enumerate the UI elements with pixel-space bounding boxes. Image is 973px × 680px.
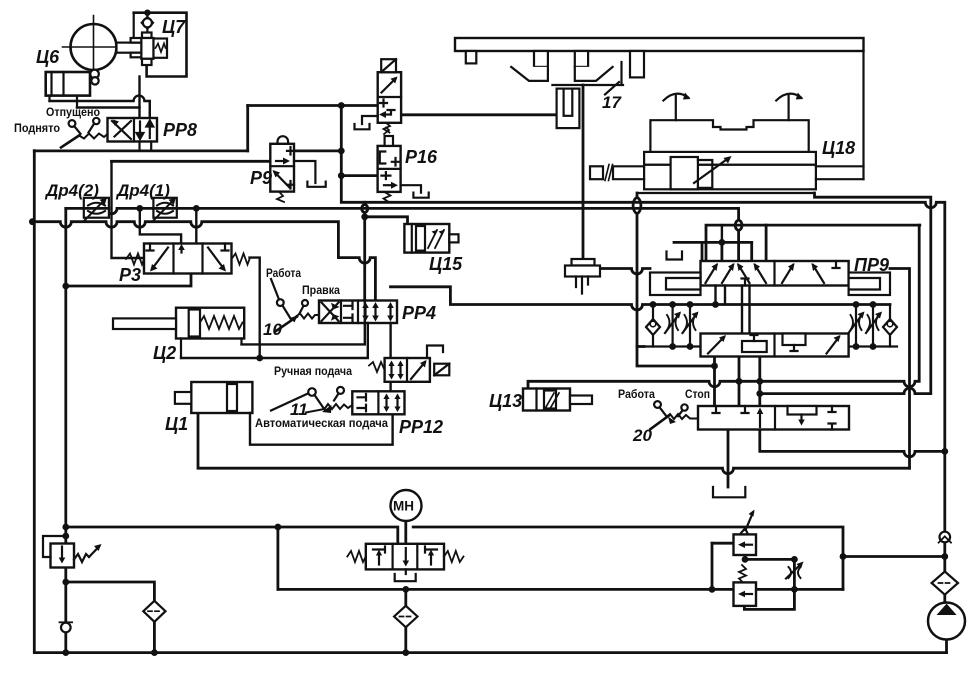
svg-text:ПР9: ПР9	[854, 255, 889, 275]
svg-text:Др4(2): Др4(2)	[44, 181, 99, 200]
svg-text:Стоп: Стоп	[685, 389, 710, 401]
svg-text:Р9: Р9	[250, 168, 272, 188]
svg-text:Р16: Р16	[405, 147, 438, 167]
svg-text:20: 20	[632, 426, 652, 445]
svg-text:Др4(1): Др4(1)	[115, 181, 170, 200]
svg-text:Поднято: Поднято	[14, 123, 60, 135]
svg-text:РР4: РР4	[402, 303, 436, 323]
svg-text:Ц6: Ц6	[36, 47, 60, 67]
svg-text:11: 11	[290, 400, 308, 419]
svg-text:Работа: Работа	[266, 268, 302, 280]
svg-text:Ц13: Ц13	[489, 391, 522, 411]
svg-text:Ручная подача: Ручная подача	[274, 366, 353, 378]
svg-text:Ц7: Ц7	[162, 17, 186, 37]
svg-text:МН: МН	[393, 499, 414, 514]
svg-text:Автоматическая подача: Автоматическая подача	[255, 418, 389, 430]
svg-text:Р3: Р3	[119, 265, 141, 285]
svg-text:РР12: РР12	[399, 417, 443, 437]
svg-text:Ц18: Ц18	[822, 138, 855, 158]
svg-text:Ц2: Ц2	[153, 343, 176, 363]
svg-text:10: 10	[263, 320, 282, 339]
svg-text:Ц15: Ц15	[429, 254, 463, 274]
svg-text:Отпущено: Отпущено	[46, 107, 100, 119]
svg-text:17: 17	[602, 93, 622, 112]
svg-text:РР8: РР8	[163, 120, 197, 140]
svg-text:Работа: Работа	[618, 389, 656, 401]
svg-text:Ц1: Ц1	[165, 414, 188, 434]
svg-text:Правка: Правка	[302, 285, 341, 297]
